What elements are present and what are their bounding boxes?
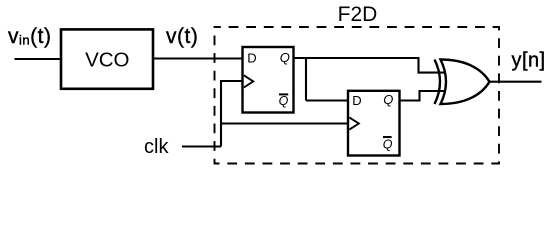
U1 Qbar overbar xyxy=(279,93,288,95)
block VCO xyxy=(61,29,153,88)
wire VCO output v(t) to FF1 D xyxy=(153,57,243,59)
wire U1 Q output to XOR top branch xyxy=(294,57,419,59)
wire into U2 D input xyxy=(306,99,348,101)
wire clk stub xyxy=(182,145,221,147)
flip-flop U1 box xyxy=(243,47,294,113)
U2 Qbar overbar xyxy=(383,136,392,138)
wire step down to XOR top input xyxy=(419,57,445,73)
wire clk branch to U2 clock xyxy=(220,122,348,124)
svg-text:D: D xyxy=(247,51,256,66)
wire junction drop to U2 D xyxy=(305,58,307,101)
svg-text:y[n]: y[n] xyxy=(512,49,546,71)
svg-text:vin(t): vin(t) xyxy=(8,25,51,48)
svg-text:clk: clk xyxy=(144,136,169,158)
flip-flop U2 box xyxy=(348,91,400,156)
xor gate U3 input arc xyxy=(435,60,441,105)
svg-text:Q: Q xyxy=(280,50,290,65)
svg-text:Q: Q xyxy=(279,94,289,108)
wire XOR output xyxy=(490,81,542,83)
svg-text:Q: Q xyxy=(383,92,393,107)
svg-text:v(t): v(t) xyxy=(166,25,198,48)
svg-text:Q: Q xyxy=(383,137,393,151)
wire clk riser xyxy=(220,80,222,147)
U1 clock triangle xyxy=(244,75,254,87)
U2 clock triangle xyxy=(349,117,359,129)
dashed box F2D xyxy=(215,27,500,164)
svg-text:D: D xyxy=(352,93,361,108)
xor gate U3 body xyxy=(441,60,490,105)
wire clk to U1 clock xyxy=(220,80,243,82)
wire U2 Q output step up to XOR bottom input xyxy=(400,91,445,101)
wire input vin to VCO xyxy=(15,58,62,60)
svg-text:F2D: F2D xyxy=(338,3,378,26)
svg-text:VCO: VCO xyxy=(85,49,129,72)
